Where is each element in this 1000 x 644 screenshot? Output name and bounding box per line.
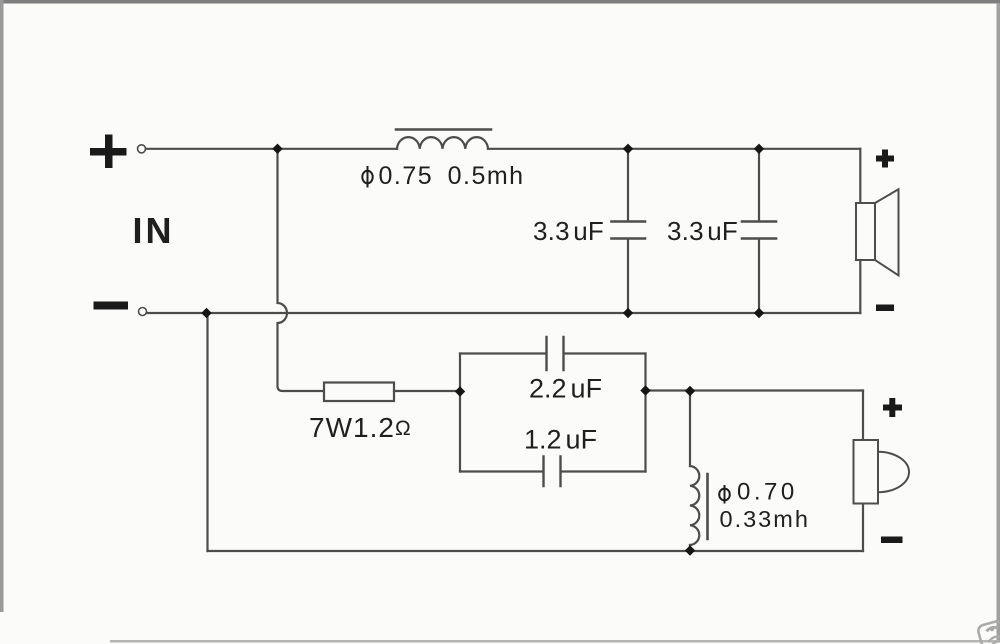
wire tweeter feed with hop over bottom rail [278, 149, 325, 391]
inductor L2 value label phi symbol [719, 485, 730, 504]
inductor L1 coil [397, 137, 488, 149]
woofer minus symbol [876, 305, 894, 312]
wire tweeter branch vertical bottom [862, 504, 864, 552]
svg-text:IN: IN [133, 210, 175, 251]
svg-text:7W1.2Ω: 7W1.2Ω [309, 412, 412, 443]
wire cap bank to tweeter [646, 389, 864, 391]
node bottom-left [201, 308, 211, 318]
watermark stamp [977, 620, 1000, 644]
node junction top-left [272, 144, 282, 154]
speaker woofer frame [856, 203, 875, 260]
wire resistor to cap bank [394, 390, 460, 392]
capacitor C1 3.3uF bottom lead [627, 240, 629, 314]
wire input plus to inductor [146, 148, 397, 150]
node cap bank right [640, 385, 650, 395]
svg-text:1.2uF: 1.2uF [524, 425, 597, 455]
speaker tweeter dome [878, 452, 909, 492]
inductor L1 value label phi symbol [362, 166, 372, 188]
wire woofer branch vertical top [859, 149, 861, 203]
node C2 top [754, 144, 764, 154]
cap bank loop top edge with gap for C3 [460, 352, 646, 354]
node C2 bottom [754, 308, 764, 318]
capacitor C2 3.3uF plates [742, 222, 776, 239]
svg-text:0.33mh: 0.33mh [720, 506, 810, 532]
capacitor C3 2.2uF plates [547, 337, 564, 370]
cap bank loop bottom edge with gap for C4 [460, 470, 646, 472]
wire inductor L2 top lead [689, 391, 691, 466]
inductor L1 core bar [396, 128, 491, 131]
cap bank loop right edge [644, 354, 646, 472]
woofer plus symbol [882, 150, 888, 168]
plus input symbol [105, 135, 113, 169]
wire inductor to woofer branch [488, 148, 860, 150]
node inductor L2 bottom [685, 545, 695, 555]
wire lower ground rail [208, 550, 864, 552]
speaker tweeter frame [854, 440, 879, 504]
minus input symbol [94, 302, 129, 310]
capacitor C1 3.3uF top lead [627, 149, 629, 220]
svg-text:2.2uF: 2.2uF [529, 374, 602, 404]
node inductor L2 top [685, 386, 695, 396]
node C1 top [623, 144, 633, 154]
wire lower-left drop to ground rail [206, 313, 208, 551]
tweeter plus symbol [889, 398, 895, 417]
resistor R1 body [324, 383, 394, 402]
svg-text:0.75 0.5mh: 0.75 0.5mh [379, 162, 525, 190]
capacitor C4 1.2uF plates [544, 457, 561, 487]
svg-text:0.70: 0.70 [737, 479, 798, 506]
wire woofer branch vertical bottom [859, 260, 861, 313]
cap bank loop left edge [459, 354, 461, 472]
wire bottom rail of top section [147, 312, 861, 314]
wire tweeter branch vertical top [862, 391, 864, 441]
terminal minus input [139, 308, 147, 316]
capacitor C2 3.3uF bottom lead [758, 240, 760, 314]
terminal plus input [138, 145, 146, 153]
tweeter minus symbol [881, 537, 903, 544]
capacitor C2 3.3uF top lead [758, 149, 760, 220]
node C1 bottom [623, 308, 633, 318]
inductor L2 core bar [706, 474, 709, 539]
capacitor C1 3.3uF plates [612, 222, 646, 239]
svg-text:3.3uF: 3.3uF [667, 216, 738, 246]
inductor L2 coil [690, 466, 699, 545]
svg-text:3.3uF: 3.3uF [533, 216, 604, 246]
wire inductor L2 bottom lead [689, 545, 691, 551]
node cap bank left [455, 386, 465, 396]
speaker woofer cone [875, 189, 899, 275]
